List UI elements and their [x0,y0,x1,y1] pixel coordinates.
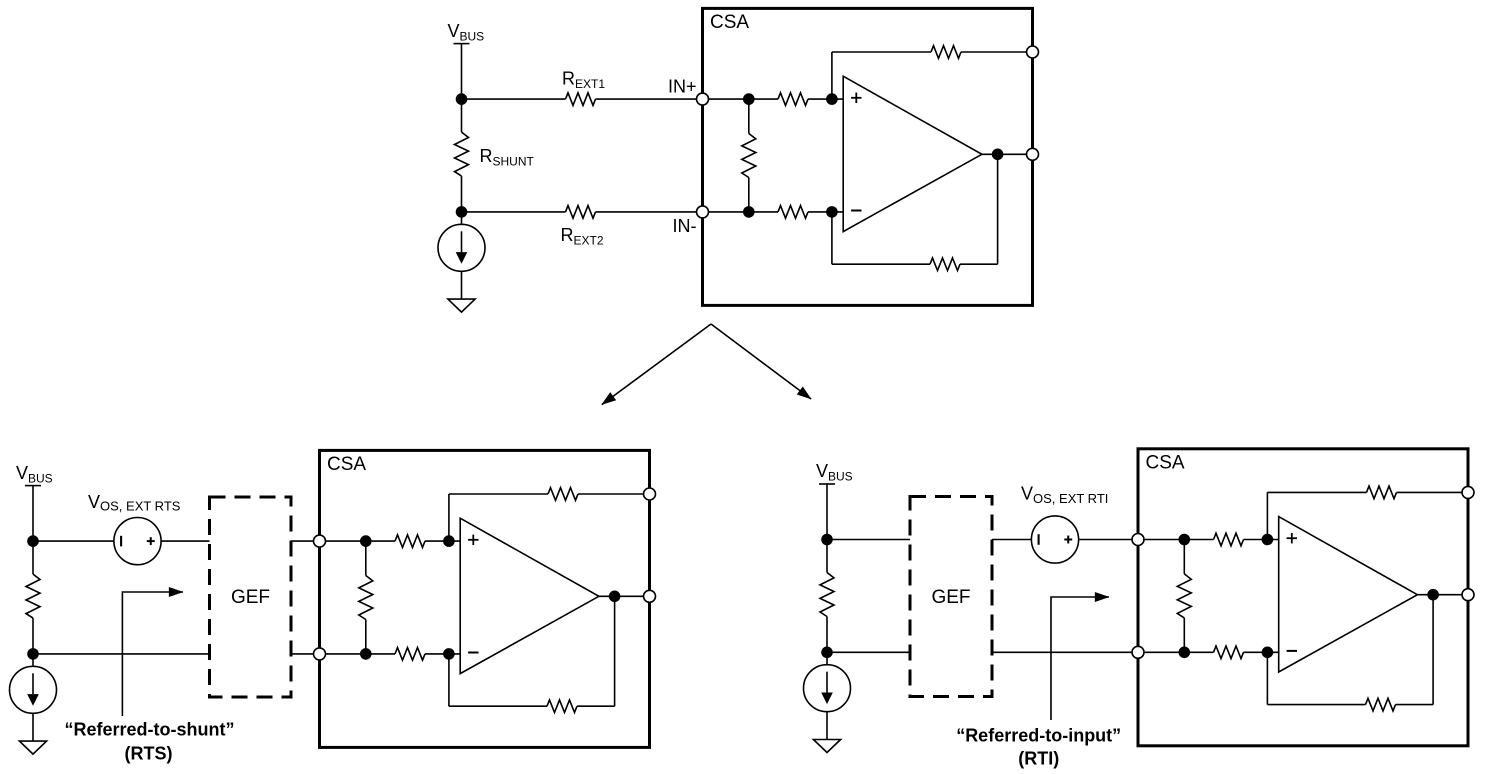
svg-text:IN-: IN- [673,216,697,236]
svg-text:REXT2: REXT2 [561,225,604,248]
svg-text:VBUS: VBUS [816,461,853,484]
svg-text:VBUS: VBUS [448,21,485,44]
svg-text:(RTI): (RTI) [1018,749,1059,769]
svg-text:GEF: GEF [231,587,270,608]
svg-text:REXT1: REXT1 [562,68,605,91]
svg-text:“Referred-to-shunt”: “Referred-to-shunt” [65,720,235,740]
svg-text:IN+: IN+ [668,77,697,97]
svg-text:VOS, EXT RTI: VOS, EXT RTI [1021,484,1108,506]
svg-text:RSHUNT: RSHUNT [480,146,535,169]
svg-text:GEF: GEF [931,587,970,608]
svg-text:“Referred-to-input”: “Referred-to-input” [956,726,1121,746]
svg-text:VOS, EXT RTS: VOS, EXT RTS [88,492,181,514]
svg-text:VBUS: VBUS [16,463,53,486]
svg-text:(RTS): (RTS) [125,744,173,764]
